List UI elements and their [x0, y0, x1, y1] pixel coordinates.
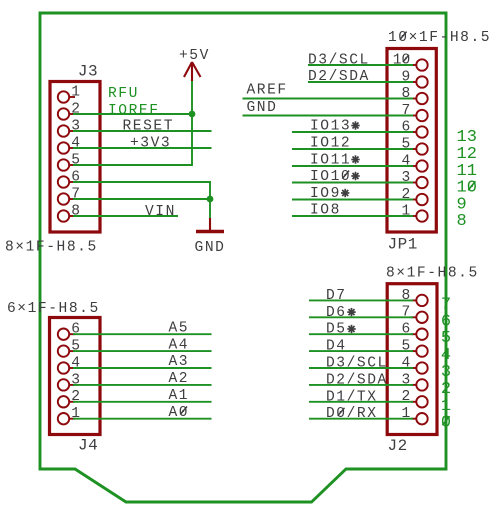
svg-text:9: 9 — [402, 69, 411, 85]
svg-text:+3V3: +3V3 — [130, 136, 171, 152]
J3 pin 1 — [58, 91, 69, 102]
svg-text:8: 8 — [402, 288, 411, 304]
wire IO12 — [292, 148, 413, 150]
JP1 pin 10 — [416, 59, 427, 70]
svg-text:D4: D4 — [326, 339, 347, 355]
junction GND — [207, 196, 214, 203]
svg-text:IO10: IO10 — [310, 169, 351, 185]
connector JP1 box — [387, 49, 436, 233]
svg-text:IOREF: IOREF — [108, 103, 160, 119]
J3 pin 3 — [58, 125, 69, 136]
svg-text:3: 3 — [402, 170, 411, 186]
wire A4 — [73, 350, 212, 352]
wire D2/SDA J2 — [309, 384, 413, 386]
svg-text:8: 8 — [402, 86, 411, 102]
wire A0 — [73, 418, 212, 420]
wire D0/RX — [309, 418, 413, 420]
svg-text:6: 6 — [402, 119, 411, 135]
wire A5 — [73, 333, 212, 335]
J2 pin 4 — [416, 362, 427, 373]
wire A2 — [73, 384, 212, 386]
J2 pin 7 — [416, 312, 427, 323]
svg-text:IO8: IO8 — [310, 203, 341, 219]
J4 pin 2 — [58, 396, 69, 407]
JP1 pin 8 — [416, 93, 427, 104]
svg-text:A1: A1 — [169, 388, 190, 404]
svg-text:RFU: RFU — [108, 86, 139, 102]
svg-text:RESET: RESET — [123, 119, 175, 135]
wire D6* — [309, 316, 413, 318]
JP1 pin 3 — [416, 177, 427, 188]
svg-text:D5: D5 — [326, 322, 347, 338]
junction IOREF/+5V — [189, 111, 196, 118]
connector J4 box — [50, 318, 101, 435]
J2 pin 1 — [416, 413, 427, 424]
wire A3 — [73, 367, 212, 369]
supply +5V symbol — [184, 62, 201, 81]
wire IO10* — [292, 182, 413, 184]
svg-text:D3/SCL: D3/SCL — [326, 356, 388, 372]
J3 pin 7 — [58, 193, 69, 204]
svg-text:6: 6 — [402, 322, 411, 338]
svg-text:J2: J2 — [388, 437, 408, 455]
wire GND pin7 — [73, 198, 210, 200]
svg-text:GND: GND — [247, 100, 278, 116]
svg-text:3: 3 — [71, 118, 80, 134]
svg-text:10×1F-H8.5: 10×1F-H8.5 — [388, 30, 491, 46]
svg-text:4: 4 — [71, 355, 80, 371]
wire GND pin6 — [73, 182, 210, 199]
svg-text:5: 5 — [402, 136, 411, 152]
wire AREF — [243, 98, 414, 100]
svg-text:D2/SDA: D2/SDA — [326, 372, 388, 388]
svg-text:2: 2 — [402, 187, 411, 203]
wire IO11* — [292, 165, 413, 167]
wire GND net — [243, 115, 414, 117]
svg-text:7: 7 — [402, 305, 411, 321]
connector J2 box — [387, 284, 437, 435]
svg-text:2: 2 — [402, 389, 411, 405]
JP1 pin 6 — [416, 126, 427, 137]
svg-text:IO13: IO13 — [310, 119, 351, 135]
svg-text:8: 8 — [457, 212, 467, 231]
svg-text:6: 6 — [71, 169, 80, 185]
svg-text:+5V: +5V — [179, 48, 210, 64]
svg-text:1: 1 — [71, 406, 80, 422]
J4 pin stubs — [69, 334, 75, 419]
svg-text:JP1: JP1 — [388, 236, 418, 254]
J3 pin 5 — [58, 159, 69, 170]
J2 pin stubs — [411, 300, 417, 418]
wire IO8 — [292, 215, 413, 217]
svg-text:5: 5 — [402, 339, 411, 355]
svg-text:10: 10 — [393, 52, 411, 68]
svg-text:VIN: VIN — [145, 204, 176, 220]
svg-text:7: 7 — [402, 103, 411, 119]
J4 pin 4 — [58, 362, 69, 373]
svg-text:8×1F-H8.5: 8×1F-H8.5 — [5, 240, 98, 256]
svg-text:4: 4 — [402, 153, 411, 169]
JP1 pin 2 — [416, 194, 427, 205]
wire RESET — [73, 130, 212, 132]
wire GND down — [209, 199, 211, 218]
svg-text:6×1F-H8.5: 6×1F-H8.5 — [7, 301, 100, 317]
wire D2/SDA — [308, 81, 413, 83]
JP1 pin 7 — [416, 110, 427, 121]
ground symbol — [196, 218, 224, 232]
svg-text:IO12: IO12 — [310, 136, 351, 152]
J3 pin 2 — [58, 108, 69, 119]
svg-text:D2/SDA: D2/SDA — [308, 69, 370, 85]
svg-text:A5: A5 — [169, 320, 190, 336]
svg-text:2: 2 — [71, 389, 80, 405]
svg-text:IO11: IO11 — [310, 153, 351, 169]
svg-text:7: 7 — [71, 186, 80, 202]
JP1 pin stubs — [411, 65, 417, 216]
J2 pin 8 — [416, 295, 427, 306]
wire +3V3 — [73, 147, 212, 149]
wire D1/TX — [309, 401, 413, 403]
svg-text:2: 2 — [71, 101, 80, 117]
svg-text:A3: A3 — [169, 354, 190, 370]
wire D3/SCL — [308, 64, 413, 66]
svg-text:1: 1 — [71, 84, 80, 100]
wire IO9* — [292, 199, 413, 201]
svg-text:4: 4 — [402, 355, 411, 371]
svg-text:D7: D7 — [326, 288, 347, 304]
svg-text:6: 6 — [71, 322, 80, 338]
svg-text:IO9: IO9 — [310, 186, 341, 202]
wire D4 — [309, 350, 413, 352]
JP1 pin 4 — [416, 160, 427, 171]
slashed zeros overlay — [180, 32, 409, 416]
svg-text:GND: GND — [195, 240, 226, 256]
svg-text:3: 3 — [402, 372, 411, 388]
svg-text:5: 5 — [71, 152, 80, 168]
svg-text:A4: A4 — [169, 337, 190, 353]
wire A1 — [73, 401, 212, 403]
svg-text:3: 3 — [71, 372, 80, 388]
svg-text:D6: D6 — [326, 305, 347, 321]
wire D3/SCL J2 — [309, 367, 413, 369]
wire D5* — [309, 333, 413, 335]
svg-text:4: 4 — [71, 135, 80, 151]
wire D7 — [309, 299, 413, 301]
J3 pin 8 — [58, 210, 69, 221]
svg-text:1: 1 — [402, 406, 411, 422]
wire IOREF — [73, 113, 192, 115]
JP1 pin 9 — [416, 76, 427, 87]
svg-text:D0/RX: D0/RX — [326, 406, 378, 422]
svg-text:8: 8 — [71, 203, 80, 219]
J4 pin 1 — [58, 413, 69, 424]
svg-text:1: 1 — [402, 203, 411, 219]
J2 pin 2 — [416, 396, 427, 407]
JP1 pin 5 — [416, 143, 427, 154]
J2 pin 3 — [416, 379, 427, 390]
wire +5V to pin5 — [73, 81, 192, 165]
board outline — [40, 13, 446, 502]
svg-text:J4: J4 — [78, 437, 98, 455]
J3 pin stubs — [69, 97, 75, 216]
J4 pin 5 — [58, 345, 69, 356]
J4 pin 3 — [58, 379, 69, 390]
svg-text:D3/SCL: D3/SCL — [308, 52, 370, 68]
J2 pin 5 — [416, 345, 427, 356]
wire IO13* — [292, 131, 413, 133]
J4 pin 6 — [58, 329, 69, 340]
J3 pin 6 — [58, 176, 69, 187]
svg-text:5: 5 — [71, 339, 80, 355]
JP1 pin 1 — [416, 210, 427, 221]
svg-text:A2: A2 — [169, 371, 190, 387]
J3 pin 4 — [58, 142, 69, 153]
svg-text:D1/TX: D1/TX — [326, 389, 378, 405]
svg-text:J3: J3 — [78, 63, 98, 81]
connector J3 box — [50, 82, 100, 233]
svg-text:8×1F-H8.5: 8×1F-H8.5 — [386, 266, 479, 282]
wire VIN — [73, 215, 178, 217]
svg-text:AREF: AREF — [247, 83, 288, 99]
J2 pin 6 — [416, 329, 427, 340]
